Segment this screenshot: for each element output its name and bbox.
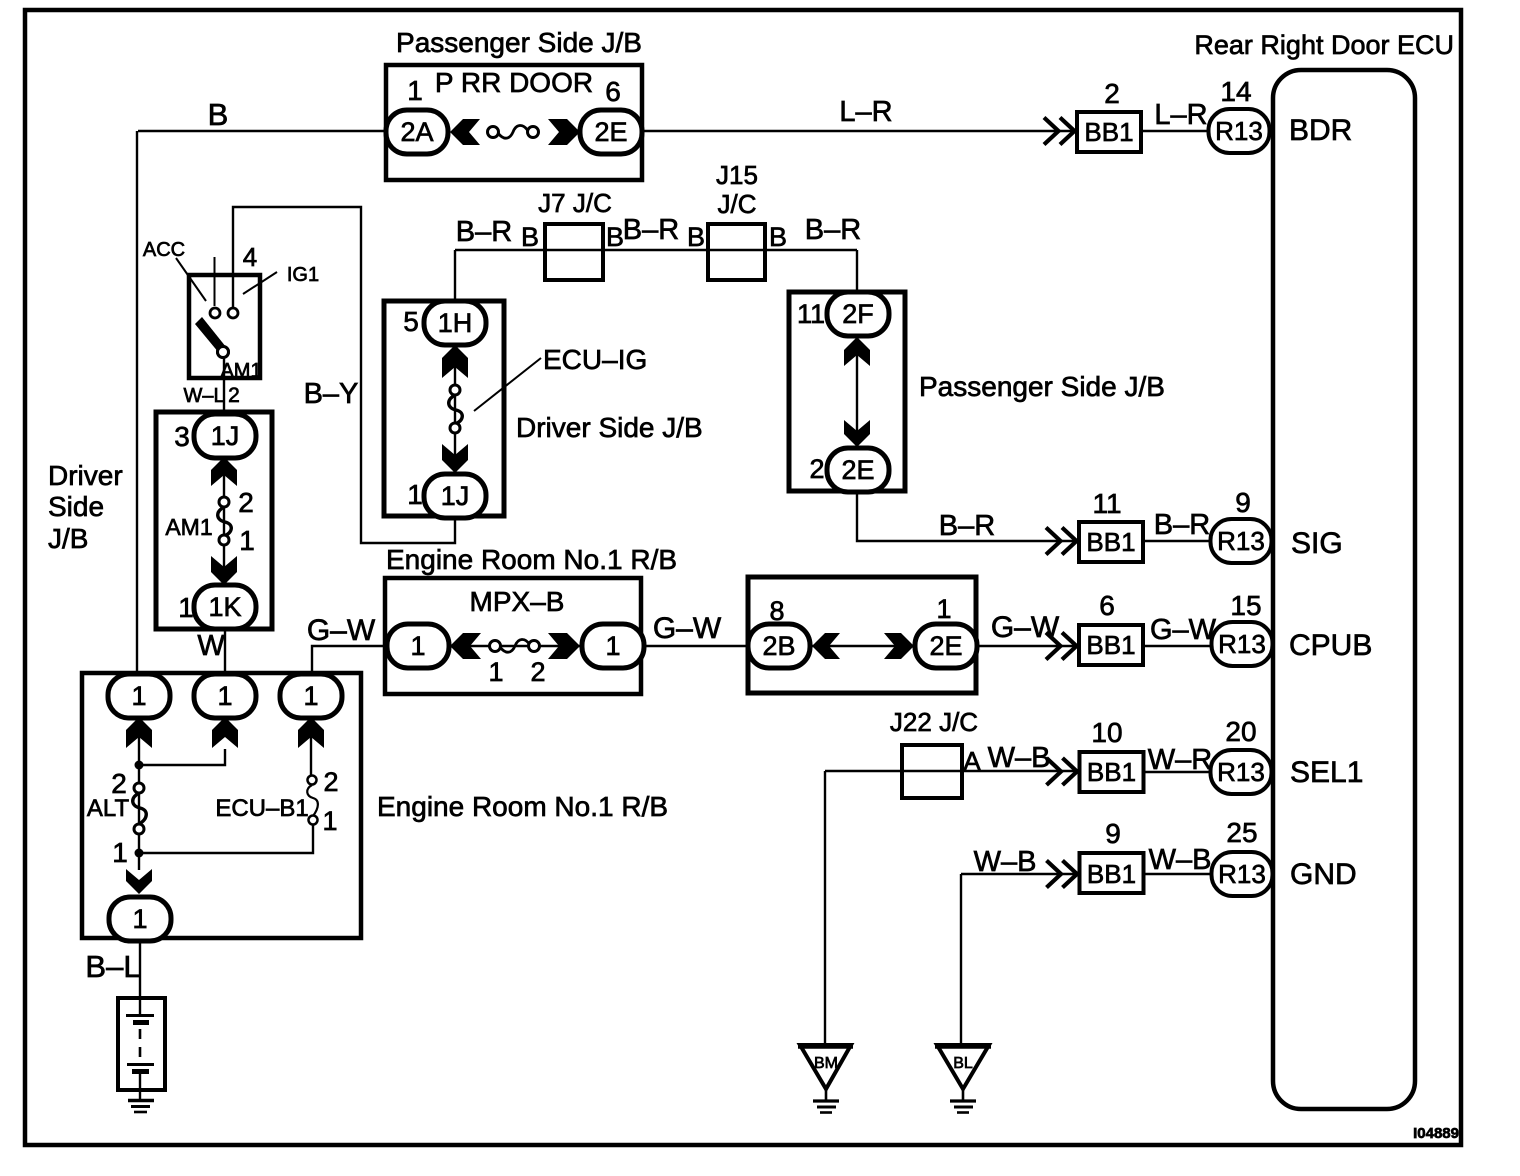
svg-text:W–B: W–B xyxy=(988,742,1051,774)
svg-text:1J: 1J xyxy=(441,481,470,511)
svg-text:J22 J/C: J22 J/C xyxy=(890,707,978,737)
svg-text:B–R: B–R xyxy=(623,214,679,246)
svg-text:8: 8 xyxy=(769,596,784,626)
svg-text:SEL1: SEL1 xyxy=(1290,756,1363,789)
svg-text:1H: 1H xyxy=(438,308,473,338)
svg-text:IG1: IG1 xyxy=(287,264,319,286)
svg-text:CPUB: CPUB xyxy=(1289,629,1372,662)
svg-text:W–L: W–L xyxy=(183,385,224,407)
svg-text:BB1: BB1 xyxy=(1087,859,1136,889)
svg-text:2F: 2F xyxy=(842,299,874,329)
svg-text:B–R: B–R xyxy=(456,216,512,248)
svg-text:G–W: G–W xyxy=(653,612,722,645)
svg-text:2E: 2E xyxy=(841,455,874,485)
svg-text:1: 1 xyxy=(239,525,255,556)
svg-text:B–Y: B–Y xyxy=(304,378,359,410)
svg-text:J/C: J/C xyxy=(718,189,757,219)
svg-text:1J: 1J xyxy=(211,421,240,451)
svg-text:1: 1 xyxy=(407,479,423,510)
svg-text:1: 1 xyxy=(112,837,128,868)
svg-text:2E: 2E xyxy=(929,631,962,661)
svg-text:R13: R13 xyxy=(1215,116,1263,146)
svg-text:R13: R13 xyxy=(1218,629,1266,659)
svg-text:A: A xyxy=(963,746,981,776)
svg-text:B–R: B–R xyxy=(1154,509,1210,541)
svg-text:2: 2 xyxy=(238,487,254,518)
svg-text:5: 5 xyxy=(403,306,419,337)
svg-text:W–R: W–R xyxy=(1148,744,1212,776)
svg-text:11: 11 xyxy=(797,299,825,329)
svg-text:1: 1 xyxy=(407,75,423,106)
svg-text:1: 1 xyxy=(303,681,318,711)
svg-text:9: 9 xyxy=(1105,818,1121,849)
svg-text:W–B: W–B xyxy=(1149,844,1212,876)
svg-text:SIG: SIG xyxy=(1291,527,1343,560)
svg-text:2: 2 xyxy=(323,767,338,797)
svg-text:MPX–B: MPX–B xyxy=(470,586,565,617)
svg-text:15: 15 xyxy=(1230,590,1261,621)
svg-text:ALT: ALT xyxy=(87,795,130,822)
svg-text:B: B xyxy=(687,222,705,252)
svg-text:J7 J/C: J7 J/C xyxy=(538,188,612,218)
svg-text:B: B xyxy=(606,222,624,252)
svg-text:R13: R13 xyxy=(1217,757,1265,787)
svg-text:1: 1 xyxy=(488,657,503,687)
svg-text:ECU–IG: ECU–IG xyxy=(543,344,647,375)
svg-text:1: 1 xyxy=(410,631,425,661)
svg-text:1: 1 xyxy=(132,904,147,934)
svg-text:2A: 2A xyxy=(400,117,433,147)
svg-text:R13: R13 xyxy=(1217,526,1265,556)
svg-text:9: 9 xyxy=(1235,487,1251,518)
svg-text:ACC: ACC xyxy=(143,239,185,261)
svg-text:2B: 2B xyxy=(762,631,795,661)
svg-text:Passenger Side J/B: Passenger Side J/B xyxy=(396,27,642,58)
svg-text:1: 1 xyxy=(178,592,194,623)
svg-text:1K: 1K xyxy=(208,592,241,622)
svg-text:1: 1 xyxy=(131,681,146,711)
svg-text:6: 6 xyxy=(1099,590,1115,621)
svg-text:GND: GND xyxy=(1290,858,1357,891)
svg-text:BB1: BB1 xyxy=(1084,117,1133,147)
svg-text:B–R: B–R xyxy=(939,510,995,542)
svg-text:2E: 2E xyxy=(594,117,627,147)
svg-text:G–W: G–W xyxy=(991,611,1060,644)
svg-text:L–R: L–R xyxy=(839,96,892,128)
svg-text:B–L: B–L xyxy=(85,949,140,984)
svg-text:25: 25 xyxy=(1226,817,1257,848)
svg-text:Side: Side xyxy=(48,491,104,522)
svg-text:ECU–B1: ECU–B1 xyxy=(215,795,308,822)
svg-text:BB1: BB1 xyxy=(1086,527,1135,557)
svg-text:B: B xyxy=(769,222,787,252)
svg-text:I04889: I04889 xyxy=(1413,1125,1459,1142)
svg-text:4: 4 xyxy=(243,242,257,272)
svg-text:J15: J15 xyxy=(716,160,758,190)
svg-text:2: 2 xyxy=(1104,78,1120,109)
svg-text:P RR DOOR: P RR DOOR xyxy=(435,67,593,98)
svg-text:Driver: Driver xyxy=(48,460,123,491)
svg-text:BB1: BB1 xyxy=(1086,630,1135,660)
svg-text:2: 2 xyxy=(809,454,824,484)
svg-text:Engine Room No.1 R/B: Engine Room No.1 R/B xyxy=(386,544,677,575)
svg-text:2: 2 xyxy=(228,384,240,407)
svg-text:3: 3 xyxy=(174,421,190,452)
svg-text:G–W: G–W xyxy=(1150,614,1217,646)
svg-text:2: 2 xyxy=(530,657,545,687)
svg-text:10: 10 xyxy=(1091,717,1122,748)
svg-text:BM: BM xyxy=(814,1055,838,1072)
svg-text:20: 20 xyxy=(1225,716,1256,747)
svg-text:B: B xyxy=(208,97,229,132)
svg-text:1: 1 xyxy=(217,681,232,711)
svg-text:Driver Side J/B: Driver Side J/B xyxy=(516,412,703,443)
svg-text:J/B: J/B xyxy=(48,523,88,554)
svg-text:1: 1 xyxy=(936,594,951,624)
svg-text:BL: BL xyxy=(953,1055,973,1072)
svg-text:BB1: BB1 xyxy=(1087,757,1136,787)
svg-text:BDR: BDR xyxy=(1289,114,1352,147)
svg-text:Rear Right Door ECU: Rear Right Door ECU xyxy=(1194,30,1454,60)
svg-text:B–R: B–R xyxy=(805,214,861,246)
svg-text:R13: R13 xyxy=(1218,859,1266,889)
svg-text:AM1: AM1 xyxy=(220,360,261,382)
svg-text:6: 6 xyxy=(605,76,621,107)
svg-text:Passenger Side J/B: Passenger Side J/B xyxy=(919,371,1165,402)
svg-text:1: 1 xyxy=(322,806,337,836)
svg-text:Engine Room No.1 R/B: Engine Room No.1 R/B xyxy=(377,791,668,822)
svg-text:W–B: W–B xyxy=(974,846,1037,878)
svg-text:W: W xyxy=(197,630,225,662)
svg-text:AM1: AM1 xyxy=(165,514,212,540)
svg-text:B: B xyxy=(521,222,539,252)
svg-text:14: 14 xyxy=(1220,76,1251,107)
svg-text:G–W: G–W xyxy=(307,614,376,647)
svg-text:L–R: L–R xyxy=(1154,99,1207,131)
svg-text:1: 1 xyxy=(605,631,620,661)
svg-text:11: 11 xyxy=(1092,488,1121,519)
